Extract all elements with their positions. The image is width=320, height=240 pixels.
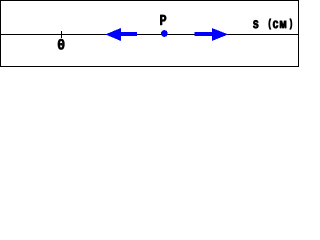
left arrow shaft	[120, 32, 137, 36]
right arrow shaft	[195, 32, 213, 36]
node P dot	[161, 30, 168, 37]
left arrow head	[105, 28, 121, 41]
label close paren	[290, 19, 292, 30]
label P	[160, 15, 166, 25]
label c (cyrillic es)	[273, 21, 278, 29]
label open paren	[269, 19, 271, 30]
right arrow head	[212, 28, 228, 41]
label s	[253, 20, 258, 28]
node origin tick	[61, 31, 62, 38]
wire: s-axis line	[0, 34, 298, 35]
label m (cyrillic em)	[280, 21, 286, 28]
label 0	[58, 39, 65, 49]
border frame	[1, 1, 299, 67]
